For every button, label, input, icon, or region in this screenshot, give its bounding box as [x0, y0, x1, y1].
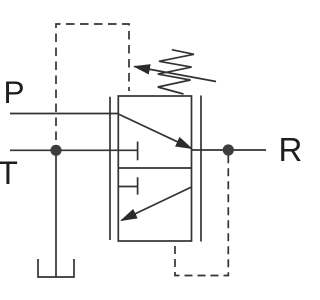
wire P line: [10, 113, 118, 115]
spring adjustment arrow: [135, 67, 217, 82]
label P: [4, 77, 25, 109]
wire R line: [192, 149, 267, 151]
valve body: [118, 96, 191, 241]
pilot line dashed top rectangle: [56, 24, 129, 148]
upper flow arrow: [118, 114, 191, 148]
lower flow arrow: [122, 187, 192, 220]
wire T line: [10, 149, 138, 151]
valve body divider: [118, 167, 191, 169]
pilot line dashed bottom-right: [175, 152, 228, 276]
node on T line: [50, 145, 61, 156]
upper blocked port bar: [137, 142, 139, 161]
node on R line: [223, 144, 234, 155]
right side line: [200, 96, 202, 242]
wire tank drop line: [55, 150, 57, 277]
label T: [0, 157, 18, 190]
label R: [279, 133, 303, 166]
lower blocked port stub: [118, 177, 137, 194]
left side line: [109, 97, 111, 240]
tank symbol: [38, 259, 74, 277]
spring: [158, 50, 194, 94]
